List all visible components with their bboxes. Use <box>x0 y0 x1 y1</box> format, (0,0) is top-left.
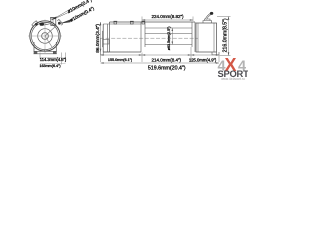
right vertical dim extension bottom <box>220 55 231 57</box>
upper-right mounting tab <box>57 19 62 25</box>
drum dia dim line <box>171 28 173 45</box>
gearbox housing <box>196 23 217 52</box>
svg-text:86.0mm(3.4”): 86.0mm(3.4”) <box>95 24 101 53</box>
clutch lever knob <box>40 23 44 26</box>
extension line right 114.3mm <box>60 53 62 65</box>
left vertical dim line <box>100 22 102 55</box>
left view inner ring <box>38 29 53 44</box>
left view horizontal centerline <box>28 35 62 37</box>
svg-text:ø63.5mm(2.5”): ø63.5mm(2.5”) <box>167 26 171 50</box>
left view second outer ring <box>31 22 58 49</box>
drum right flange <box>192 22 195 52</box>
top dim line 224mm <box>142 19 193 21</box>
left view outer circle <box>30 21 60 51</box>
leader arrow lower label <box>60 19 73 24</box>
left view radial spoke NE <box>45 26 57 37</box>
right vertical dim line 216mm <box>228 17 230 56</box>
drum bottom line <box>145 44 192 46</box>
left view radial spoke SE <box>45 36 52 47</box>
drum axis supports <box>45 50 48 52</box>
tie bar top line <box>110 21 196 23</box>
bottom dim row1 line <box>101 54 220 56</box>
svg-text:214.0mm(8.4”): 214.0mm(8.4”) <box>152 57 182 62</box>
motor terminal box <box>103 40 109 45</box>
svg-text:163mm(6.4”): 163mm(6.4”) <box>39 64 60 68</box>
motor end cap detail <box>103 24 110 52</box>
motor body bottom <box>103 51 141 53</box>
gearbox inner line right <box>213 23 215 52</box>
dim line 163mm <box>40 62 66 64</box>
extension line right 163mm <box>65 53 67 63</box>
svg-text:125.0mm(4.9”): 125.0mm(4.9”) <box>189 58 217 63</box>
clutch lever handle <box>44 22 52 25</box>
tie bar second line <box>110 23 142 25</box>
svg-text:224.0mm(8.82”): 224.0mm(8.82”) <box>151 14 184 19</box>
clutch cap on top <box>51 18 56 26</box>
svg-text:216.0mm(8.5”): 216.0mm(8.5”) <box>223 18 229 52</box>
motor bolt on top <box>114 22 117 25</box>
tie bar bolt 2 <box>131 22 134 25</box>
motor end cap main rib <box>109 22 111 52</box>
left side plate edge left <box>33 42 35 51</box>
clutch cap top flange <box>50 17 57 19</box>
dim line 114.3mm <box>40 56 61 58</box>
upper-left mounting tab hole <box>35 23 38 26</box>
upper-left mounting tab <box>32 21 38 27</box>
clutch cap inner line <box>52 18 54 26</box>
right vertical dim extension top <box>217 16 231 18</box>
left view vertical centerline <box>44 20 46 54</box>
left foot pad hatched <box>34 52 38 54</box>
top dim extension lines <box>141 17 143 22</box>
upper-right mounting tab hole <box>58 22 61 25</box>
left side plate edge right <box>55 42 57 51</box>
right view: motor left edge <box>102 24 104 52</box>
gearbox inner line <box>197 23 199 52</box>
clutch lever on side view <box>206 14 211 19</box>
drum rope line <box>145 33 192 35</box>
bottom dim ticks <box>100 38 102 62</box>
svg-text:114.3mm(4.5”): 114.3mm(4.5”) <box>40 57 67 62</box>
motor foot line <box>101 52 104 55</box>
drum top line <box>145 27 192 29</box>
centerline dashed <box>100 37 198 39</box>
left view hub circle <box>42 33 49 40</box>
extension line left 114.3mm <box>39 53 41 59</box>
svg-text:www.4x4sport.ru: www.4x4sport.ru <box>221 77 245 80</box>
svg-text:519.6mm(20.4”): 519.6mm(20.4”) <box>148 66 186 72</box>
drum left flange <box>141 22 145 52</box>
right foot pad hatched <box>53 52 57 54</box>
clutch pedestal on gearbox <box>203 19 212 23</box>
bottom total dim line <box>101 62 220 64</box>
base deck lines <box>34 51 57 54</box>
tie bar bolt 3 <box>142 22 145 25</box>
leader arrow upper label <box>52 9 71 20</box>
gearbox foot <box>212 52 219 55</box>
svg-text:155.0mm(6.1”): 155.0mm(6.1”) <box>108 58 132 62</box>
